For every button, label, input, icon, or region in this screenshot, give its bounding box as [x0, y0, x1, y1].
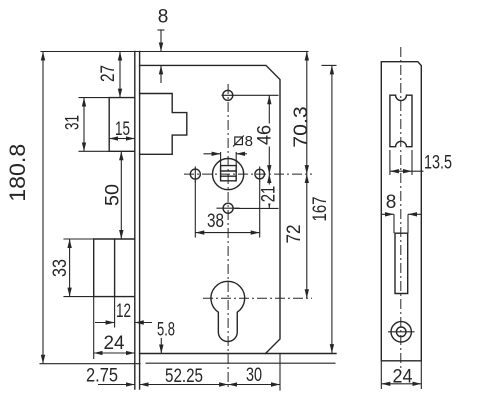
- svg-text:70.3: 70.3: [291, 106, 312, 148]
- svg-text:24: 24: [104, 333, 125, 354]
- svg-text:5.8: 5.8: [157, 320, 175, 341]
- svg-text:30: 30: [246, 365, 262, 386]
- svg-text:50: 50: [103, 184, 124, 206]
- svg-text:21: 21: [259, 186, 280, 203]
- svg-text:27: 27: [98, 65, 119, 82]
- svg-text:24: 24: [393, 367, 413, 388]
- svg-text:13.5: 13.5: [424, 153, 452, 174]
- svg-text:2.75: 2.75: [86, 366, 118, 387]
- svg-text:12: 12: [116, 301, 131, 322]
- svg-text:15: 15: [115, 119, 130, 140]
- svg-text:8: 8: [245, 133, 253, 150]
- svg-text:72: 72: [284, 225, 305, 244]
- svg-text:38: 38: [207, 211, 224, 232]
- svg-text:8: 8: [386, 192, 397, 213]
- svg-text:31: 31: [63, 115, 84, 130]
- svg-text:33: 33: [50, 259, 71, 277]
- svg-text:167: 167: [310, 197, 331, 222]
- svg-text:180.8: 180.8: [5, 144, 30, 202]
- svg-text:52.25: 52.25: [165, 366, 203, 387]
- svg-text:46: 46: [255, 125, 276, 145]
- svg-text:8: 8: [158, 7, 169, 28]
